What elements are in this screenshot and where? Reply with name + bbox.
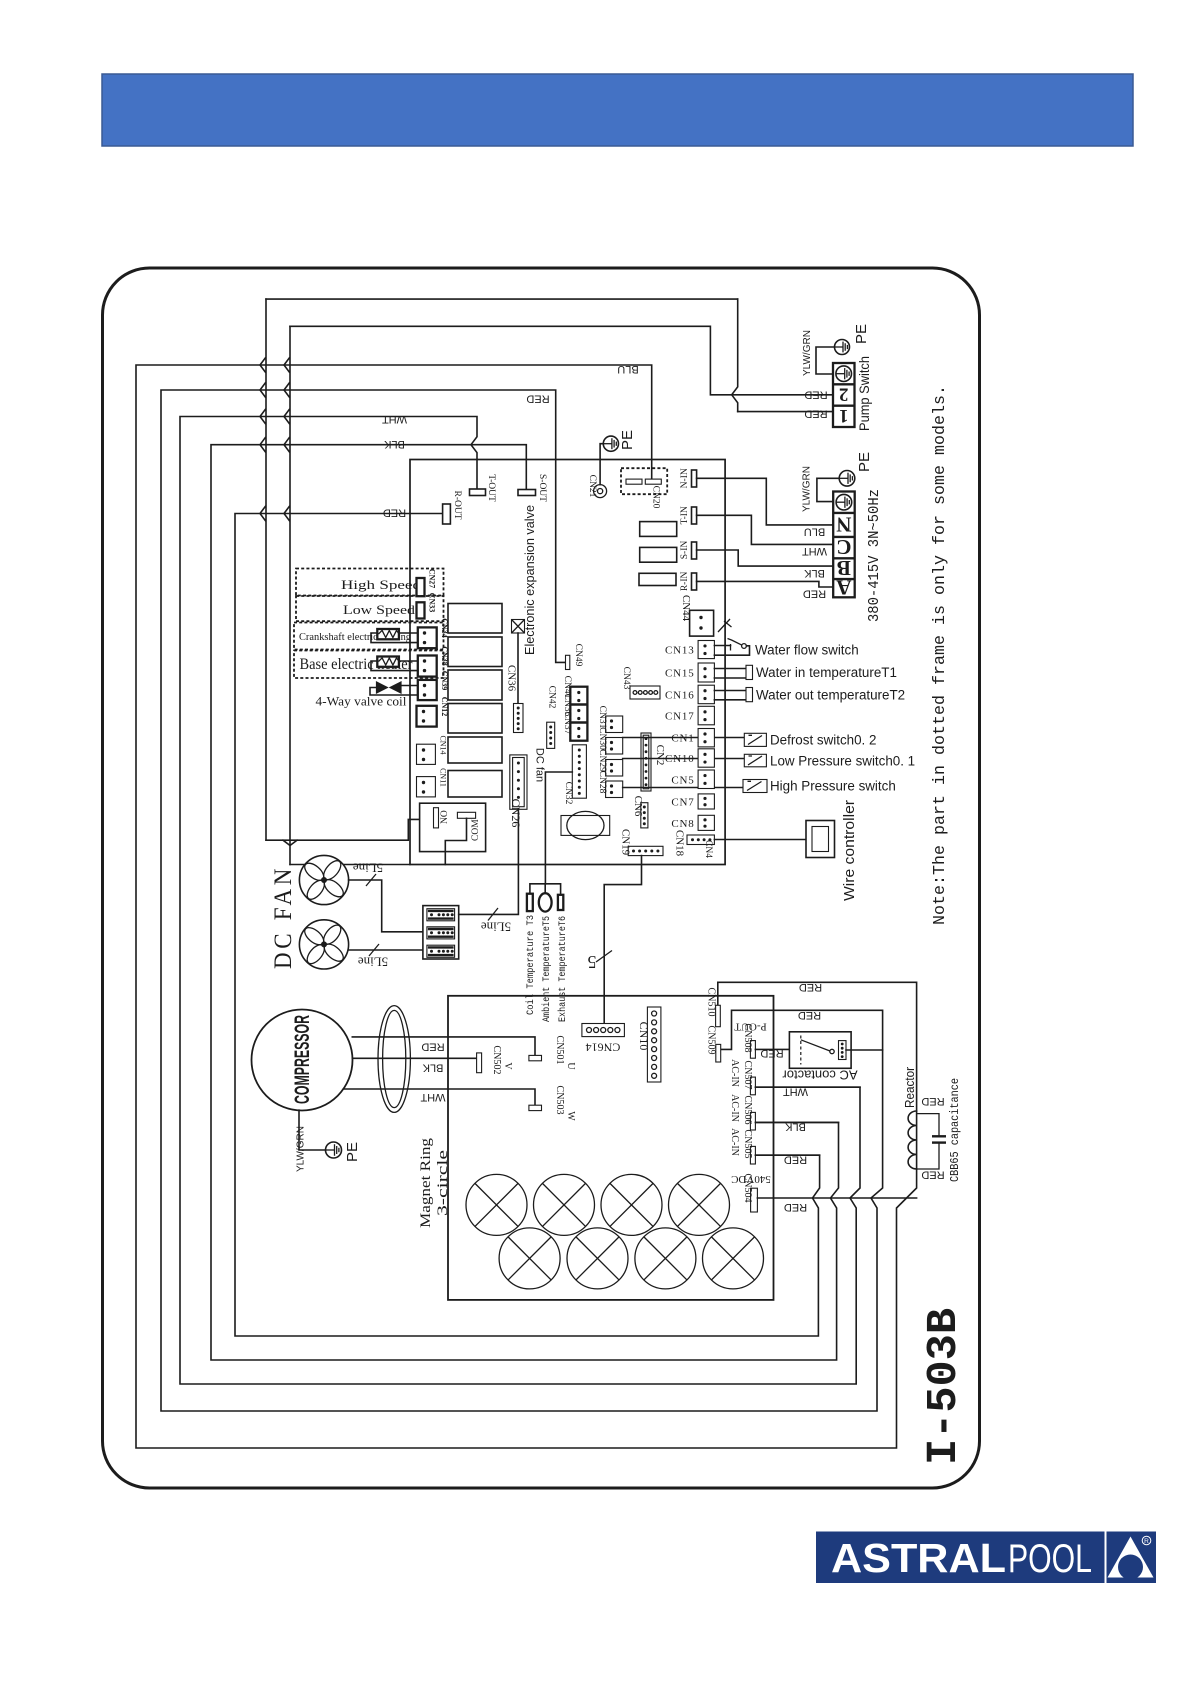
svg-text:CN30: CN30: [597, 727, 607, 750]
svg-text:RED: RED: [526, 393, 549, 405]
connector CN32: [572, 745, 586, 798]
svg-text:R-IN: R-IN: [680, 572, 690, 592]
svg-text:CN10: CN10: [665, 753, 694, 765]
svg-text:CN5: CN5: [671, 774, 694, 786]
svg-text:R: R: [1144, 1538, 1149, 1545]
connector CN17: [698, 706, 714, 725]
svg-text:CN7: CN7: [671, 796, 694, 808]
outer rounded border frame: [103, 268, 980, 1488]
svg-text:V: V: [502, 1062, 513, 1070]
temperature probe T2 and wires: [714, 690, 746, 692]
connector CN14: [417, 744, 436, 764]
svg-text:CN505: CN505: [742, 1130, 753, 1159]
logo registered mark: [1142, 1536, 1151, 1545]
svg-text:U: U: [565, 1062, 576, 1070]
connector CN10: [698, 749, 714, 767]
svg-text:Water out temperatureT2: Water out temperatureT2: [756, 688, 905, 703]
svg-text:CN26: CN26: [509, 799, 523, 828]
connector CN13: [698, 641, 714, 659]
header blue bar: [102, 74, 1133, 146]
connector CN6: [641, 803, 648, 828]
svg-text:Ambient TemperatureT5: Ambient TemperatureT5: [541, 916, 553, 1022]
wire W2 loop: CN49 around frame to CN509-RED: [161, 390, 883, 1411]
svg-text:CN614: CN614: [586, 1041, 621, 1055]
svg-text:CN29: CN29: [597, 749, 607, 772]
svg-text:CN28: CN28: [597, 771, 607, 794]
svg-text:CBB65 capacitance: CBB65 capacitance: [948, 1078, 962, 1182]
svg-text:AC-IN: AC-IN: [729, 1094, 740, 1122]
relay 5: [448, 737, 502, 763]
svg-text:CN33: CN33: [428, 593, 437, 613]
wire sensors to CN32: [545, 772, 572, 884]
svg-text:5Line: 5Line: [353, 861, 384, 876]
svg-text:PE: PE: [344, 1142, 361, 1162]
svg-text:YLW/GRN: YLW/GRN: [296, 1126, 307, 1172]
svg-text:POOL: POOL: [1008, 1537, 1092, 1581]
relay 6: [448, 771, 502, 798]
svg-text:5Line: 5Line: [481, 920, 512, 935]
svg-text:CN506: CN506: [742, 1096, 753, 1125]
svg-text:YLW/GRN: YLW/GRN: [802, 330, 813, 376]
svg-text:T-IN: T-IN: [680, 506, 690, 524]
connector CN503: [529, 1105, 542, 1110]
svg-text:DC FAN: DC FAN: [270, 865, 297, 969]
relay block 2: [640, 547, 677, 562]
svg-text:Reactor: Reactor: [902, 1066, 917, 1108]
wire W3 loop: T-OUT-WHT around frame to CN507-WHT: [180, 417, 860, 1385]
pin S-IN with wire to terminal B: [692, 542, 697, 559]
svg-text:380-415V 3N~50Hz: 380-415V 3N~50Hz: [866, 489, 883, 622]
wires valve to CN39: [402, 685, 418, 687]
high pressure switch box: [743, 780, 767, 793]
svg-text:Magnet Ring: Magnet Ring: [418, 1137, 434, 1228]
svg-text:NO: NO: [440, 810, 450, 824]
svg-text:CN43: CN43: [621, 667, 631, 690]
logo triangle mark: [1108, 1537, 1154, 1578]
svg-text:C: C: [836, 535, 851, 559]
connector T-OUT: [470, 489, 486, 496]
wire W5 loop: R-OUT-RED around frame to CN505-RED: [235, 514, 820, 1337]
wires heater to CN38: [399, 660, 418, 662]
svg-text:RED: RED: [784, 1201, 807, 1213]
connector CN21 coax circle: [594, 485, 607, 498]
svg-text:BLU: BLU: [617, 363, 638, 375]
svg-text:S-OUT: S-OUT: [537, 474, 547, 502]
svg-text:RED: RED: [784, 1154, 807, 1166]
svg-text:N: N: [836, 513, 851, 537]
sensor T3 thermistor: [527, 894, 533, 911]
jump of NO wire over V7: [283, 840, 297, 845]
svg-text:PE: PE: [853, 324, 870, 344]
svg-text:2: 2: [839, 384, 849, 405]
svg-text:CN11: CN11: [439, 768, 448, 787]
pin T-IN with wire to terminal C: [692, 507, 697, 524]
svg-text:High Speed: High Speed: [341, 577, 422, 592]
contactor coil pin block: [839, 1041, 847, 1060]
svg-text:CN17: CN17: [665, 711, 694, 723]
wire compressor RED to CN501: [352, 1037, 535, 1056]
connector CN42: [547, 722, 555, 748]
svg-text:Wire controller: Wire controller: [841, 800, 858, 901]
svg-text:RED: RED: [921, 1169, 944, 1181]
svg-text:RED: RED: [760, 1047, 783, 1059]
svg-text:BLK: BLK: [784, 1121, 805, 1133]
relay 4: [448, 704, 502, 734]
pin CN509: [716, 1044, 721, 1062]
connector CN1: [698, 729, 714, 747]
wire V6: relay NO contact to pump switch 1: [266, 819, 434, 840]
svg-text:I-503B: I-503B: [919, 1308, 968, 1465]
svg-text:CN508: CN508: [742, 1024, 753, 1053]
wire CN28 to high pressure switch: [623, 787, 743, 789]
svg-text:R-OUT: R-OUT: [452, 490, 462, 519]
pin CN506 AC-IN: [750, 1112, 755, 1130]
wire W1 loop: CN20-BLU around frame to CN510-RED: [136, 365, 917, 1448]
connector DC fan: [510, 755, 527, 809]
connector CN501: [529, 1055, 542, 1060]
DC fan 1: [299, 855, 348, 904]
connector CN7: [698, 794, 714, 809]
pin CN504 540VDC: [751, 1188, 758, 1212]
svg-text:CN504: CN504: [742, 1174, 753, 1203]
relay NO COM box: [420, 803, 486, 851]
svg-text:CN4: CN4: [703, 840, 713, 858]
svg-text:CN1: CN1: [671, 733, 694, 745]
fan triple connector box: [423, 906, 459, 959]
compressor circle: [252, 1010, 353, 1111]
relay 3: [448, 670, 502, 700]
svg-text:RED: RED: [798, 1009, 821, 1021]
wire ABCN PE to earth: [817, 478, 839, 501]
wire fan connector to DC fan plug with 5Line mark: [459, 809, 519, 914]
4-way valve coil symbol: [376, 681, 389, 694]
pin N-IN with wire to terminal N: [692, 470, 697, 487]
svg-text:CN18: CN18: [674, 830, 686, 857]
magnet ring ellipses: [378, 1006, 410, 1113]
connector CN4 and wire to wire controller: [687, 835, 714, 845]
svg-text:Pump Switch: Pump Switch: [856, 356, 872, 431]
PE earth symbol at pump switch: [835, 340, 850, 355]
svg-text:CN32: CN32: [563, 782, 573, 805]
connector S-OUT: [518, 490, 536, 496]
svg-text:RED: RED: [921, 1095, 944, 1107]
connector stack CN41 CN35 CN37: [570, 687, 587, 741]
svg-text:RED: RED: [804, 389, 827, 401]
dotted box Crankshaft electric heating: [294, 623, 444, 650]
svg-text:PE: PE: [856, 452, 873, 472]
NO pin: [434, 808, 439, 828]
connector CN39: [418, 680, 437, 700]
temperature probe T1 and wires: [714, 668, 746, 670]
svg-text:CN37: CN37: [562, 712, 572, 735]
svg-text:BLK: BLK: [422, 1062, 443, 1074]
PE earth symbol compressor: [326, 1142, 342, 1158]
pin CN507 AC-IN: [750, 1077, 755, 1095]
svg-text:CN507: CN507: [742, 1061, 753, 1090]
wire controller box: [806, 821, 835, 858]
main control PCB board outline: [410, 460, 725, 865]
svg-text:Water flow switch: Water flow switch: [755, 643, 859, 658]
svg-text:COMPRESSOR: COMPRESSOR: [291, 1015, 314, 1104]
PE earth symbol at ABCN: [839, 471, 855, 487]
connector CN8: [698, 815, 714, 830]
CN44 plug mark: [718, 619, 732, 632]
terminal PE cell screw: [836, 494, 852, 510]
svg-text:CN501: CN501: [554, 1036, 565, 1065]
relay 2: [448, 637, 502, 667]
svg-text:RED: RED: [421, 1041, 444, 1053]
svg-text:RED: RED: [799, 981, 822, 993]
sensor T6 thermistor: [558, 895, 563, 910]
wire compressor to PE: [299, 1110, 326, 1150]
connector column CN31 CN30 CN29 CN28: [606, 716, 623, 733]
CN20 pin bars: [626, 479, 642, 484]
svg-text:Note:The part in dotted frame: Note:The part in dotted frame is only fo…: [931, 385, 950, 925]
connector CN19: [628, 846, 663, 855]
connector CN44: [690, 610, 714, 636]
svg-text:High Pressure switch: High Pressure switch: [770, 779, 896, 794]
connector CN36: [514, 704, 524, 733]
svg-text:N-IN: N-IN: [680, 468, 690, 488]
svg-text:5Line: 5Line: [358, 955, 389, 970]
svg-text:CN20: CN20: [651, 486, 661, 509]
connector CN502: [477, 1053, 482, 1073]
svg-text:CN21: CN21: [587, 475, 597, 498]
AstralPool logo square: [1107, 1532, 1157, 1584]
wires heater to CN34: [399, 632, 418, 634]
svg-text:CN31: CN31: [597, 706, 607, 729]
svg-text:WHT: WHT: [783, 1086, 808, 1098]
wire V7: relay COM to pump switch 2: [290, 864, 410, 866]
pin CN505 AC-IN: [750, 1146, 755, 1164]
svg-text:RED: RED: [383, 507, 406, 519]
svg-text:CN27: CN27: [428, 569, 437, 589]
inverter power board box: [448, 996, 774, 1300]
connector CN16: [698, 685, 714, 704]
electronic expansion valve symbol: [512, 620, 525, 634]
svg-text:Coil Temperature T3: Coil Temperature T3: [525, 915, 537, 1015]
pump terminal PE screw: [836, 366, 852, 382]
svg-text:RED: RED: [803, 588, 826, 600]
sensor T5 thermistor: [539, 893, 552, 911]
svg-text:BLU: BLU: [804, 526, 825, 538]
wire W4 loop: S-OUT-BLK around frame to CN506-BLK: [211, 445, 839, 1360]
low pressure switch box: [744, 754, 766, 767]
connector CN15: [698, 663, 714, 682]
svg-text:5: 5: [588, 952, 597, 972]
connector CN38: [418, 656, 437, 677]
connector CN27: [417, 578, 425, 596]
svg-text:CN15: CN15: [665, 668, 694, 680]
svg-text:Low Pressure switch0. 1: Low Pressure switch0. 1: [770, 754, 915, 769]
wire CN29 to low pressure switch: [623, 758, 745, 760]
svg-text:WHT: WHT: [802, 545, 827, 557]
connector CN5: [698, 770, 714, 789]
svg-text:4-Way valve coil: 4-Way valve coil: [316, 694, 407, 709]
svg-text:COM: COM: [471, 819, 481, 841]
svg-text:CN8: CN8: [671, 818, 694, 830]
wire CN21 to PE: [600, 444, 603, 485]
svg-text:RED: RED: [804, 408, 827, 420]
terminal block ABCN: [833, 492, 855, 598]
svg-text:Water in temperatureT1: Water in temperatureT1: [756, 665, 897, 680]
AstralPool logo bar: [816, 1532, 1105, 1584]
connector CN10 vertical: [647, 1007, 661, 1082]
wire CN30 to defrost switch: [623, 737, 745, 739]
wire fan1 to connector: [349, 880, 423, 932]
connector CN614: [582, 1024, 625, 1037]
connector CN12: [417, 706, 437, 727]
svg-text:Defrost switch0. 2: Defrost switch0. 2: [770, 733, 876, 748]
connector CN34: [418, 627, 437, 648]
base heater resistor: [377, 657, 399, 667]
svg-text:CN44: CN44: [680, 595, 692, 622]
connector CN33: [417, 602, 425, 618]
svg-text:CN502: CN502: [491, 1046, 502, 1075]
connector CN11: [417, 777, 436, 797]
svg-text:CN6: CN6: [632, 796, 644, 817]
wire fan2 to connector: [349, 949, 423, 951]
AC contactor box: [789, 1032, 851, 1069]
wire compressor WHT to CN503: [343, 1089, 535, 1105]
svg-text:Low Speed: Low Speed: [343, 602, 416, 617]
pin CN510: [716, 1005, 721, 1026]
crankcase heater resistor: [377, 629, 399, 639]
svg-text:1: 1: [839, 405, 849, 426]
svg-text:CN16: CN16: [665, 689, 694, 701]
dotted box Low Speed: [296, 596, 444, 621]
wire CN19 to CN614 with 5-line mark: [604, 856, 641, 1023]
svg-text:CN49: CN49: [573, 644, 583, 667]
dotted box High Speed: [296, 569, 444, 596]
capacitor CBB65: [917, 1114, 939, 1169]
svg-text:AC-IN: AC-IN: [729, 1059, 740, 1087]
defrost switch box: [744, 733, 766, 746]
svg-text:CN36: CN36: [506, 665, 518, 692]
relay block 1 near CN20: [640, 522, 677, 537]
svg-text:A: A: [835, 576, 851, 600]
terminal circles row 1: [466, 1174, 527, 1235]
wire valve to CN36: [517, 633, 519, 704]
svg-text:W: W: [565, 1111, 576, 1121]
pin R-IN with wire to terminal A: [692, 573, 697, 590]
connector CN49: [565, 661, 567, 663]
svg-text:CN19: CN19: [620, 829, 632, 856]
svg-text:CN510: CN510: [706, 988, 717, 1017]
svg-text:CN503: CN503: [554, 1086, 565, 1115]
svg-text:CN13: CN13: [665, 645, 694, 657]
terminal circles row 2: [499, 1228, 560, 1289]
svg-text:AC contactor: AC contactor: [782, 1068, 858, 1083]
svg-text:DC fan: DC fan: [534, 748, 546, 782]
relay block 3: [639, 573, 676, 585]
svg-text:ASTRAL: ASTRAL: [831, 1535, 1006, 1581]
svg-text:CN14: CN14: [439, 735, 448, 754]
svg-text:BLK: BLK: [803, 567, 824, 579]
svg-text:PE: PE: [619, 430, 636, 450]
svg-text:S-IN: S-IN: [680, 541, 690, 560]
relay 1: [448, 604, 502, 634]
svg-text:CN509: CN509: [706, 1026, 717, 1055]
wire pump PE to earth: [816, 347, 835, 374]
svg-text:Electronic expansion valve: Electronic expansion valve: [522, 505, 537, 655]
COM pin: [457, 812, 475, 818]
reactor coil: [908, 1111, 917, 1169]
svg-text:AC-IN: AC-IN: [729, 1128, 740, 1156]
svg-text:Exhaust TemperatureT6: Exhaust TemperatureT6: [557, 916, 569, 1022]
connector CN2: [641, 733, 651, 791]
transformer: [561, 816, 610, 836]
svg-text:WHT: WHT: [420, 1091, 445, 1103]
svg-text:YLW/GRN: YLW/GRN: [802, 466, 813, 512]
svg-text:CN10: CN10: [637, 1022, 651, 1051]
connector R-OUT: [443, 504, 451, 524]
water flow switch symbol and wires: [714, 645, 730, 647]
svg-text:T-OUT: T-OUT: [486, 474, 496, 502]
pin CN508 with wire to contactor: [750, 1041, 755, 1059]
dotted frame CN20: [621, 468, 667, 494]
svg-text:WHT: WHT: [382, 413, 407, 425]
connector CN43: [630, 686, 660, 699]
wire compressor BLK to CN502: [353, 1057, 477, 1059]
DC fan 2: [299, 920, 348, 969]
svg-text:CN42: CN42: [547, 686, 557, 709]
svg-text:BLK: BLK: [383, 438, 404, 450]
dotted box Base electric heater: [294, 651, 444, 679]
terminal block pump switch 1 2: [833, 363, 855, 427]
